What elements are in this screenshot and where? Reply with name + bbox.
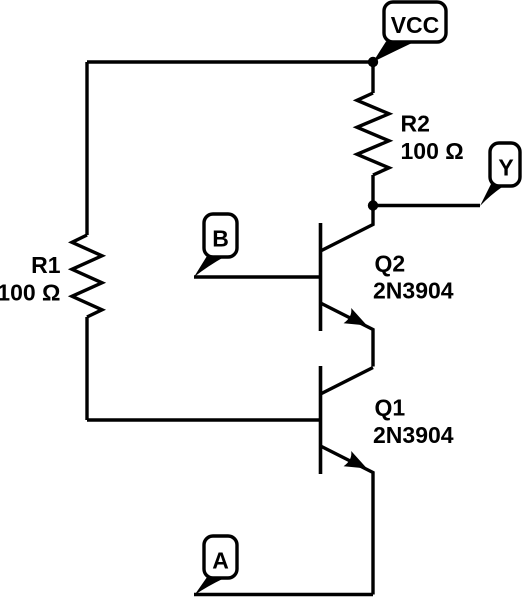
node B flag xyxy=(194,214,237,277)
node Y flag xyxy=(480,143,520,206)
svg-text:R2: R2 xyxy=(401,111,430,137)
transistor Q1 xyxy=(321,366,374,595)
svg-text:100 Ω: 100 Ω xyxy=(0,280,61,306)
node VCC junction dot xyxy=(368,57,378,67)
svg-text:Y: Y xyxy=(498,155,513,181)
resistor R2 xyxy=(357,93,389,175)
node VCC flag xyxy=(373,2,446,62)
label R2 value xyxy=(401,111,464,165)
transistor Q2 xyxy=(321,206,374,367)
node Y junction dot xyxy=(368,200,378,210)
svg-text:A: A xyxy=(212,548,229,574)
node A flag xyxy=(195,536,238,595)
wire R2 bottom lead xyxy=(371,175,374,206)
label Q1 value xyxy=(373,395,454,449)
svg-text:2N3904: 2N3904 xyxy=(373,278,454,304)
label Q2 value xyxy=(373,251,454,304)
wire top horizontal VCC rail xyxy=(87,60,373,63)
wire Q1 base xyxy=(87,418,321,421)
svg-text:100 Ω: 100 Ω xyxy=(401,138,464,164)
svg-text:B: B xyxy=(212,226,229,252)
wire R2 top lead xyxy=(371,62,374,93)
wire Q2 base from B xyxy=(194,275,321,278)
svg-text:R1: R1 xyxy=(31,252,61,278)
svg-text:VCC: VCC xyxy=(391,12,440,38)
svg-text:2N3904: 2N3904 xyxy=(373,422,454,448)
wire left vertical lower xyxy=(85,317,88,420)
resistor R1 xyxy=(72,235,102,317)
wire left vertical xyxy=(85,62,88,235)
svg-text:Q2: Q2 xyxy=(375,251,406,277)
wire Y output xyxy=(373,204,480,207)
label R1 value xyxy=(0,252,61,306)
wire bottom to A xyxy=(194,593,373,596)
svg-text:Q1: Q1 xyxy=(375,395,406,421)
